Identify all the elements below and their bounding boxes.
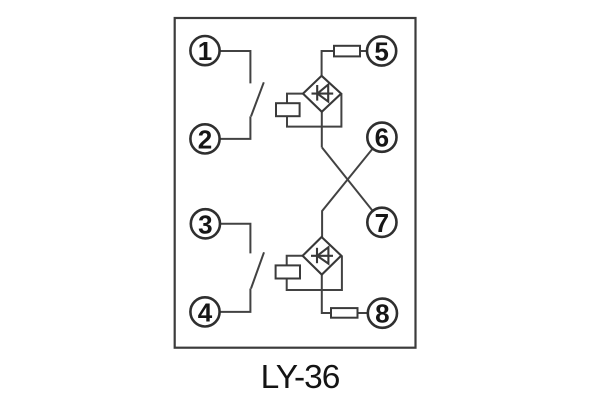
svg-text:3: 3 <box>198 209 212 239</box>
svg-text:6: 6 <box>375 123 389 153</box>
svg-text:1: 1 <box>198 36 212 66</box>
svg-text:7: 7 <box>375 208 389 238</box>
svg-text:4: 4 <box>198 297 213 327</box>
svg-text:2: 2 <box>198 124 212 154</box>
svg-text:5: 5 <box>374 37 388 67</box>
svg-text:LY-36: LY-36 <box>261 359 340 396</box>
svg-text:8: 8 <box>375 299 389 329</box>
